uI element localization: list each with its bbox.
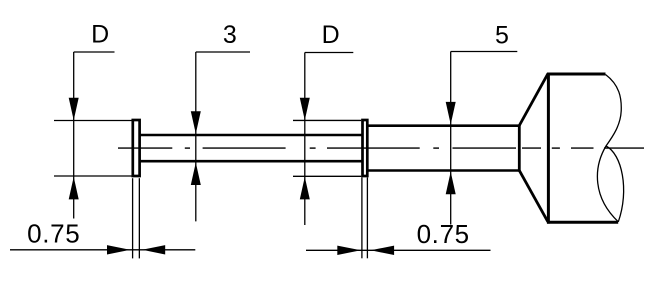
break lens arc [606,146,624,222]
dimension 0.75 left left-arrow [142,245,165,254]
dimension 0.75 left line [10,249,195,251]
cone upper slant [519,74,548,126]
disk2 bottom extension line [293,175,361,177]
svg-text:3: 3 [223,21,237,49]
disk1 right face tail [138,178,140,258]
dimension 3 down arrow [191,111,201,134]
disk2 left face tail [361,178,363,259]
dimension 3 vertical line [195,52,197,221]
large shaft top edge [368,124,520,127]
dimension 5 vertical line [450,52,452,225]
dimension D1 down arrow [69,98,79,121]
dimension D2 leader shoulder [305,52,354,54]
thin shaft bottom edge [140,160,362,163]
thin shaft top edge [140,134,362,137]
svg-text:5: 5 [495,22,509,50]
head top edge [547,73,606,76]
dimension 3 leader shoulder [196,51,250,53]
left flange disk [133,120,140,176]
large shaft bottom edge [368,169,520,172]
dimension 0.75 right line [306,249,491,251]
cone base edge [518,125,521,172]
cone lower slant [519,170,548,221]
dimension D1 vertical line [73,52,75,219]
disk1 bottom extension line [54,175,132,177]
disk2 top extension line [293,119,361,121]
head front edge vertical [547,73,550,224]
dimension 0.75 right left-arrow [371,246,395,255]
dimension 0.75 left right-arrow [107,245,130,254]
right flange disk [363,120,368,176]
dimension D1 leader shoulder [74,51,115,53]
disk2 right face tail [366,178,368,259]
dimension 5 up arrow [446,172,456,195]
svg-text:0.75: 0.75 [27,219,80,249]
dimension D2 up arrow [300,177,310,200]
centerline (dash-dot axis) [118,147,644,149]
svg-text:D: D [91,20,109,48]
dimension 5 leader shoulder [451,51,518,53]
disk1 left face tail [132,178,134,258]
svg-text:D: D [322,21,340,49]
head bottom edge [547,221,618,224]
dimension D2 vertical line [304,53,306,226]
dimension 5 down arrow [446,102,456,125]
dimension D2 down arrow [300,98,310,121]
dimension D1 up arrow [69,177,79,200]
dimension 0.75 right right-arrow [337,246,361,255]
dimension 3 up arrow [191,163,201,186]
svg-text:0.75: 0.75 [417,219,470,249]
disk1 top extension line [54,120,132,122]
break S-curve [597,75,621,222]
